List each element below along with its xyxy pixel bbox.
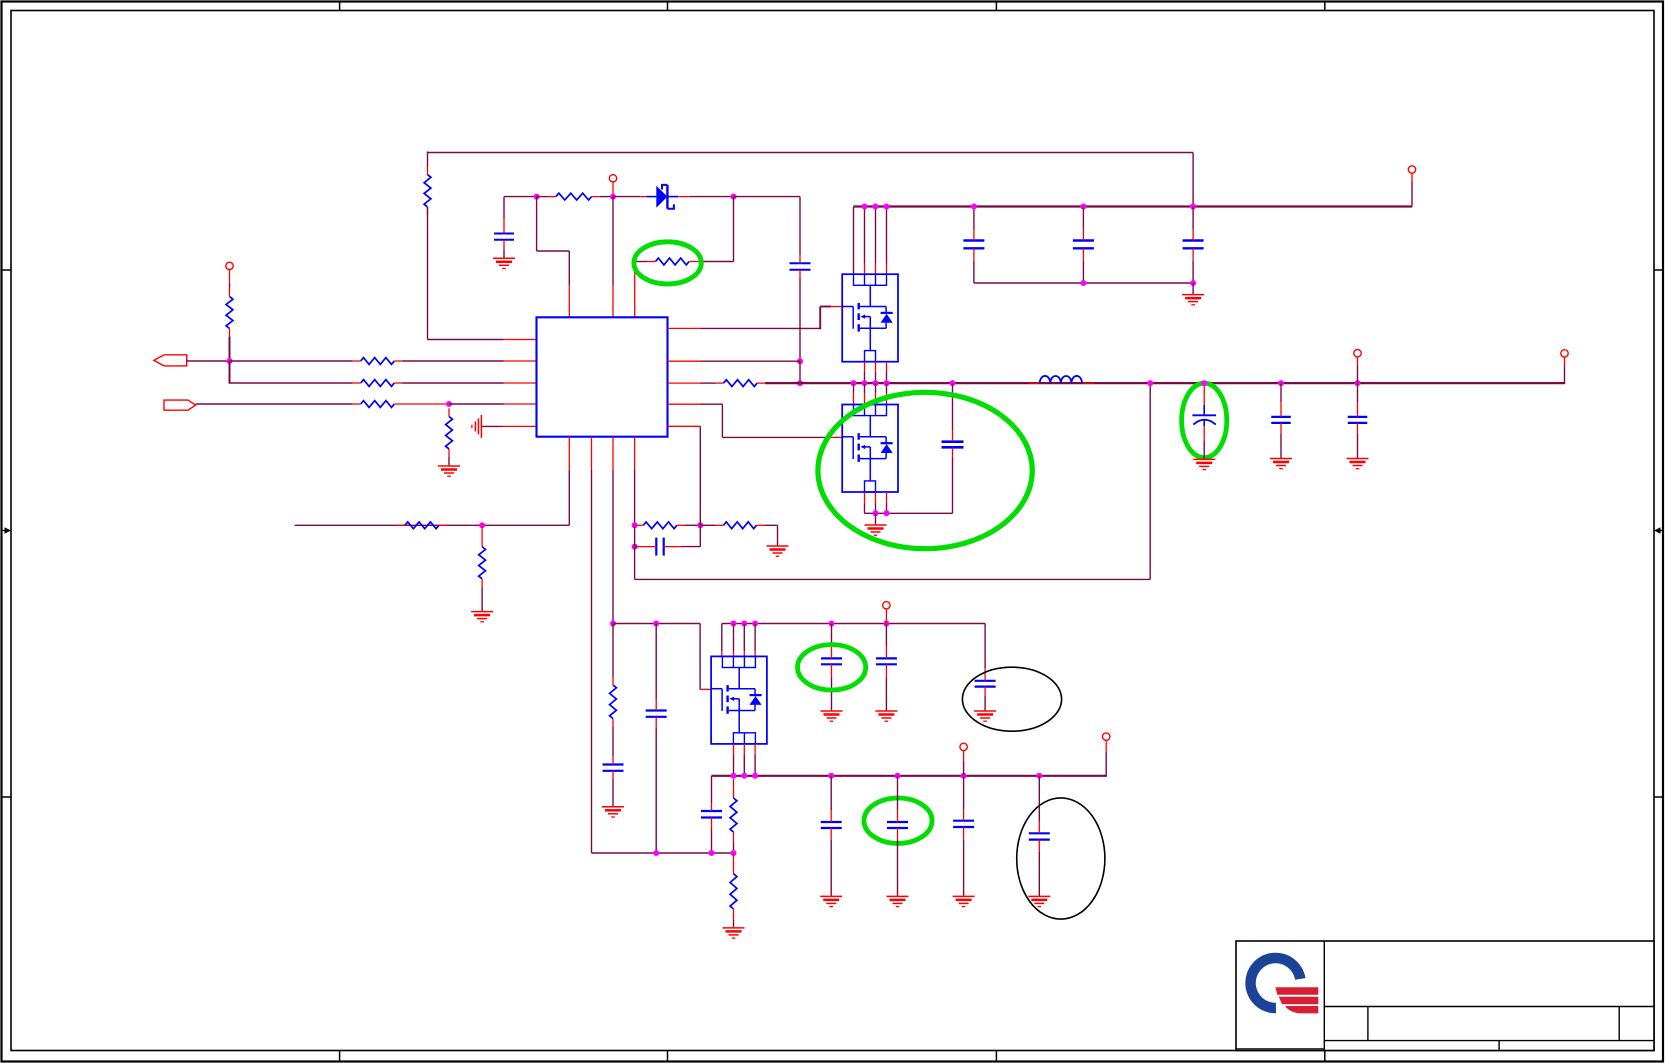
wire D1 cathode to node A <box>690 196 734 198</box>
resistor R6 <box>353 380 403 387</box>
pin IC left-4 lead <box>504 403 537 405</box>
wire SW bus <box>765 382 1564 384</box>
capacitor C20 <box>1029 821 1050 852</box>
junction VIN riser <box>1190 204 1196 210</box>
wire return to ground <box>1192 283 1194 295</box>
junction SW at x800 <box>797 380 803 386</box>
port circle P4 VOUT-A <box>1354 350 1361 357</box>
pin Q2 source leads <box>865 492 887 503</box>
wire below LDO junction <box>612 624 614 678</box>
junction bus2 cap C12 <box>653 621 659 627</box>
wire R15 to bottom bus <box>733 843 735 853</box>
junction bus2 Q3-a <box>731 621 737 627</box>
chassis ground AGND <box>472 415 482 438</box>
gate lead Q2 <box>831 436 842 438</box>
wire P4 to bus <box>1357 366 1359 383</box>
junction bus2 port <box>883 621 889 627</box>
pin IC right-4 lead <box>668 403 701 405</box>
pin IC right-3 lead <box>668 382 701 384</box>
wire junction down to row2 <box>229 361 231 384</box>
pin IC bottom-1 lead <box>568 437 570 470</box>
junction feedback row1 <box>227 358 233 364</box>
wire C10 lower <box>1357 434 1359 459</box>
wire row2 to R6 <box>230 382 353 384</box>
wire C12 upper <box>655 624 657 700</box>
wire VIN cap 3 upper <box>1192 207 1194 230</box>
resistor R14 <box>610 677 617 727</box>
transistor Q3 pass <box>711 656 767 744</box>
wire R6 to IC pin <box>402 382 503 384</box>
wire C14 upper <box>885 624 887 647</box>
wire port to junction <box>187 360 230 362</box>
stub P1 to node <box>612 182 614 197</box>
capacitor C9 output <box>1271 402 1291 434</box>
wire R16 to ground <box>733 920 735 928</box>
title block <box>1236 941 1654 1051</box>
wire C18 lower <box>897 840 899 896</box>
port circle P5 VOUT-B <box>1561 350 1568 357</box>
inductor L1 <box>1040 376 1082 383</box>
capacitor C13 <box>821 646 842 677</box>
ground G16 <box>887 896 909 906</box>
wire bus2 right segment <box>722 623 985 625</box>
ground G12 <box>875 711 897 721</box>
wire SW bus right end up <box>1564 366 1566 384</box>
pin IC top-3 lead <box>634 285 636 317</box>
wire R14 to C11 <box>612 727 614 757</box>
junction VIN cap 3 <box>1190 204 1196 210</box>
capacitor C6 input <box>1183 229 1204 261</box>
stub comp junction down <box>481 525 483 539</box>
junction FB <box>632 522 638 528</box>
junction obus2 C19 <box>961 773 967 779</box>
wire C18 upper <box>897 776 899 810</box>
port circle P8 VOUT2-B <box>1103 733 1110 740</box>
pin IC EN lead <box>504 339 537 341</box>
highlight ellipse around C18 <box>864 798 932 843</box>
wire R7 to junction <box>446 403 449 405</box>
junction VCC at C1 branch <box>534 194 540 200</box>
junction VIN Q1-b <box>873 204 879 210</box>
port circle P7 VOUT2-A <box>960 743 967 750</box>
wire VCC to R2 <box>537 196 548 198</box>
wire out bus 2 <box>712 775 1107 777</box>
wire VIN cap 2 lower <box>1082 261 1084 283</box>
junction VOUT C10 <box>1355 380 1361 386</box>
resistor R11 <box>637 522 685 529</box>
junction obus2 C20 <box>1036 773 1042 779</box>
pin IC top-2 lead <box>612 285 614 317</box>
wire C1 to ground <box>503 250 505 258</box>
stub P3 <box>1411 173 1413 181</box>
junction obus2 C17 <box>828 773 834 779</box>
gate lead Q1 <box>831 306 842 308</box>
wire C13 upper <box>831 624 833 647</box>
junction VREG <box>610 194 616 200</box>
wire R10 to ground <box>481 587 483 612</box>
ground G4 <box>767 546 789 556</box>
capacitor C17 <box>821 810 842 840</box>
pin Q2 drain leads <box>854 393 887 405</box>
wire BST to IC <box>701 360 801 362</box>
wire R8 to ground <box>448 457 450 466</box>
wire R1 bottom to IC pin EN <box>428 207 504 340</box>
ground G14 <box>723 928 745 938</box>
wire C19 upper <box>963 776 965 809</box>
junction VIN Q1-c <box>884 204 890 210</box>
stub P6 <box>885 609 887 624</box>
wire R4 to junction row1 <box>229 337 231 362</box>
wire C3 right to mid <box>681 546 700 548</box>
junction bottom bus C12 <box>653 850 659 856</box>
junction SW Q-c <box>873 380 879 386</box>
stub P8 <box>1105 740 1107 752</box>
junction FB mid <box>697 522 703 528</box>
wire VIN cap 1 upper <box>973 207 975 230</box>
wire R11 to R12 <box>700 524 715 526</box>
junction VOUT sense <box>1147 380 1153 386</box>
junction VIN cap top 974 <box>971 204 977 210</box>
capacitor C2 bootstrap <box>790 255 811 279</box>
junction bus2 Q3-c <box>752 621 758 627</box>
wire R12 to ground corner <box>764 525 777 546</box>
junction BST <box>797 358 803 364</box>
wire R5 to IC pin <box>402 360 503 362</box>
stub R15 top <box>733 779 735 790</box>
wire VCC down-over to IC top pin 1 <box>537 197 570 285</box>
junction obus2 Q3-a <box>731 773 737 779</box>
wire VIN bus <box>854 205 1413 207</box>
wire BST to SW <box>799 361 801 383</box>
junction Q2 src-a <box>873 510 879 516</box>
wire C9 lower <box>1280 434 1282 459</box>
resistor R5 <box>353 358 403 365</box>
ground G11 <box>821 711 843 721</box>
wire bus2 end corner down <box>984 624 986 669</box>
wire VIN cap 3 lower <box>1192 261 1194 283</box>
wire C20 upper <box>1038 776 1040 821</box>
pin IC top-1 lead <box>568 285 570 317</box>
wire R3 right to node A drop <box>701 261 734 263</box>
wire C9 upper <box>1280 383 1282 402</box>
junction bottom bus C16 <box>709 850 715 856</box>
capacitor C10 output <box>1348 402 1368 434</box>
highlight ellipse around C8 <box>1182 383 1227 457</box>
junction bus2 Q3-b <box>741 621 747 627</box>
wire VIN bus drop to Q1 pins <box>854 207 887 275</box>
wire C12 lower <box>655 728 657 853</box>
pin IC right-5 lead <box>668 425 701 427</box>
resistor R1 <box>424 166 431 215</box>
ground G5 <box>1182 295 1204 305</box>
wire snubber cap bottom <box>952 458 954 513</box>
junction SW snubber <box>950 380 956 386</box>
junction LDO in <box>610 621 616 627</box>
capacitor C8 polarized leads <box>1203 386 1205 441</box>
ground G8 <box>1270 459 1292 469</box>
pin Q1 source leads <box>865 362 887 372</box>
pin IC right-2 lead <box>668 360 701 362</box>
wire FB sense run <box>635 383 1151 579</box>
capacitor C18 <box>887 810 908 840</box>
inductor L1 leads <box>1029 382 1094 384</box>
wire P3 to VIN bus <box>1411 181 1413 207</box>
resistor R10 <box>479 539 486 587</box>
highlight ellipse around R3 <box>634 242 701 284</box>
wire bus2 drop corner to Q3 pin1 <box>721 624 723 652</box>
junction SW Q-d <box>884 380 890 386</box>
wire C11 to ground <box>612 779 614 807</box>
wire C17 upper <box>830 776 832 810</box>
junction obus2 Q3-c <box>752 773 758 779</box>
junction VIN Q1-a <box>862 204 868 210</box>
wire gate drive high <box>701 327 821 329</box>
port arrow P_IN right-pointing <box>164 400 196 410</box>
wire bus2 drops to Q3 <box>734 624 756 652</box>
wire P7 to bus <box>963 762 965 776</box>
ground G17 <box>953 896 975 906</box>
wire cap C1 branch <box>503 197 505 218</box>
junction SW Q-b <box>862 380 868 386</box>
pin IC bottom-3 lead <box>612 437 614 470</box>
wire obus2 left corner down <box>711 776 713 803</box>
capacitor C19 <box>953 809 974 840</box>
port circle P3 VIN <box>1408 166 1415 173</box>
ground G7 <box>1193 459 1215 469</box>
port circle P1 VREG <box>609 175 616 182</box>
wire FB down to cap row <box>634 525 636 546</box>
resistor R16 <box>730 866 737 920</box>
wire Q2 source to ground <box>875 513 877 525</box>
wire bus2 left segment <box>613 624 700 690</box>
wire SW drop to Q2 pins <box>854 383 887 393</box>
ground G18 <box>1028 896 1050 906</box>
wire IC bottom-1 down to comp row <box>295 470 570 525</box>
junction at R8 top <box>446 401 452 407</box>
ground G3 <box>471 612 493 622</box>
wire C19 lower <box>963 840 965 896</box>
border center arrow right <box>1654 527 1663 533</box>
pin IC left-2 lead <box>504 360 537 362</box>
junction node A <box>731 194 737 200</box>
wire C14 lower <box>885 677 887 711</box>
lead R3 corner red <box>634 266 636 285</box>
gate lead Q3 <box>700 688 711 690</box>
resistor R15 <box>730 790 737 843</box>
ground G1 <box>493 258 515 268</box>
junction VIN cap 2 <box>1080 204 1086 210</box>
wire C2 to BST node <box>799 279 801 362</box>
wire C15 lower <box>984 696 986 711</box>
resistor R4 <box>226 289 233 337</box>
wire SW from IC to R13 <box>701 382 716 384</box>
stub P5 <box>1564 357 1566 366</box>
wire VREG to zener D1 <box>613 196 640 198</box>
capacitor C8 polarized <box>1192 405 1216 427</box>
wire VIN cap 2 upper <box>1082 207 1084 230</box>
wire R11 to mid node <box>685 524 700 526</box>
wire input cap return <box>974 282 1193 284</box>
resistor R9 <box>397 522 447 529</box>
border center arrow left <box>2 527 11 533</box>
capacitor C4 input <box>963 229 984 261</box>
wire C17 lower <box>830 840 832 896</box>
capacitor C11 <box>603 757 624 779</box>
wire node A down to Rg <box>733 197 735 262</box>
ground G6 <box>865 525 887 535</box>
wire C20 lower <box>1038 852 1040 896</box>
wire IC bottom-3 drop <box>612 470 614 624</box>
ground G15 <box>820 896 842 906</box>
resistor R7 <box>353 401 446 408</box>
highlight ellipse around C13 <box>798 645 866 690</box>
stub P4 <box>1357 357 1359 366</box>
pin IC bottom-2 lead <box>591 437 593 470</box>
wire R2 to VREG node <box>600 196 613 198</box>
junction return right <box>1190 280 1196 286</box>
junction bottom bus R15 <box>731 850 737 856</box>
ground G13 <box>974 711 996 721</box>
ground G9 <box>1347 459 1369 469</box>
capacitor C7 snubber <box>942 430 964 458</box>
transistor Q2 low-side <box>842 405 898 493</box>
stub P2 down <box>229 269 231 283</box>
junction obus2 C18 <box>895 773 901 779</box>
pin Q3 drain lead 1 <box>721 651 723 656</box>
capacitor C5 input <box>1073 229 1094 261</box>
wire C8 to ground <box>1203 441 1205 459</box>
ground G2 <box>438 466 460 476</box>
resistor R13 <box>716 380 766 387</box>
wire port P_IN to R7 <box>196 403 353 405</box>
wire C13 lower <box>831 677 833 711</box>
junction obus2 Q3-b <box>741 773 747 779</box>
wire FB pin down <box>634 470 636 525</box>
wire C3 left lead <box>635 546 637 548</box>
pin IC left-3 lead <box>504 382 537 384</box>
wire VCC node horizontal <box>504 196 537 198</box>
junction bus2 C13 <box>829 621 835 627</box>
wire Q2 source rails <box>865 503 953 513</box>
wire VIN cap 1 lower <box>973 261 975 283</box>
highlight black ellipse around C20 <box>1017 798 1105 919</box>
junction SW Q-a <box>851 380 857 386</box>
resistor R3 highlighted <box>647 258 701 265</box>
wire row1 to R5 <box>230 360 353 362</box>
wire gate drive high corner <box>820 307 831 330</box>
ground G10 <box>602 807 624 817</box>
pin IC right-1 lead <box>668 327 701 329</box>
wire IC bottom-2 long drop <box>592 470 734 853</box>
resistor R2 <box>548 193 600 200</box>
wire VIN top run <box>428 152 1194 167</box>
resistor R12 <box>716 522 765 529</box>
pin Q3 source leads <box>734 744 756 755</box>
capacitor C1 <box>494 218 514 250</box>
pin Q1 drain leads <box>865 263 887 274</box>
wire snubber cap top <box>952 383 954 430</box>
wire obus2 right end up <box>1105 752 1107 777</box>
junction Q2 src-b <box>884 510 890 516</box>
wire FB mid down to cap row <box>699 525 701 546</box>
wire junction to IC pin <box>449 403 504 405</box>
wire R3 left corner down to IC top pin 3 <box>635 262 647 268</box>
wire Q3 source to out bus <box>734 755 756 776</box>
port arrow P_OUT1 left-pointing <box>154 355 187 366</box>
pin IC bottom-4 lead <box>634 437 636 470</box>
port circle P6 LDO-IN <box>883 602 890 609</box>
wire Q1 source to SW bus <box>865 372 887 383</box>
highlight ellipse around Q2 stage <box>818 392 1032 548</box>
wire IC right-5 down to FB mid <box>699 426 701 525</box>
junction return mid <box>1080 280 1086 286</box>
wire AGND to IC pin <box>481 425 502 427</box>
pin IC left-5 lead <box>502 425 537 427</box>
junction FB cap row <box>632 544 638 550</box>
highlight black ellipse around C15 <box>962 667 1061 731</box>
capacitor C3 feedforward <box>637 538 681 556</box>
wire node A to bootstrap corner <box>734 197 801 255</box>
transistor Q1 high-side <box>842 274 898 362</box>
company logo <box>1245 953 1318 1014</box>
stub R16 top <box>733 853 735 866</box>
junction VOUT C8 <box>1201 380 1207 386</box>
junction comp divider <box>479 522 485 528</box>
wire P2 stub to R4 <box>229 283 231 289</box>
capacitor C16 <box>701 803 722 829</box>
junction VOUT C9 <box>1278 380 1284 386</box>
wire C16 to bottom bus <box>711 829 713 853</box>
wire VIN riser <box>1192 153 1194 207</box>
resistor R8 <box>446 408 453 457</box>
wire C10 upper <box>1357 383 1359 402</box>
port circle P2 pullup <box>226 262 233 269</box>
capacitor C14 <box>876 646 897 677</box>
capacitor C12 <box>646 699 667 728</box>
stub P7 <box>963 750 965 762</box>
pin Q3 drain leads <box>734 651 756 656</box>
IC U1 main controller <box>537 317 668 436</box>
wire VREG down to IC top pin 2 <box>612 197 614 285</box>
zener diode D1 <box>640 185 689 209</box>
capacitor C15 <box>975 668 996 696</box>
wire gate drive low <box>701 404 832 437</box>
